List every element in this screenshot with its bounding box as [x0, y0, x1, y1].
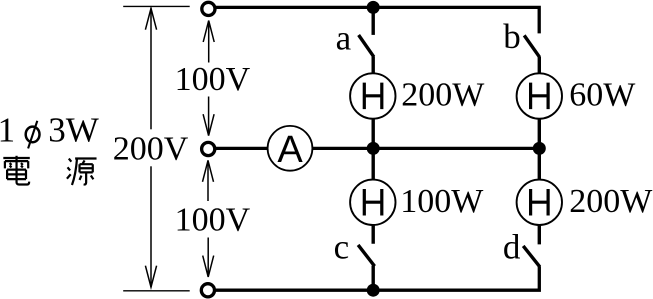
switch b blade: [524, 35, 539, 57]
svg-text:1: 1: [0, 111, 15, 150]
label kanji GEN (source) hand-drawn: [67, 159, 97, 185]
label phi symbol of 1phi3W (drawn circle + slash): [26, 121, 40, 149]
heater H3 circle (bottom-left): [350, 180, 395, 225]
svg-text:200W: 200W: [401, 76, 485, 113]
svg-text:100V: 100V: [175, 61, 251, 98]
wire bottom bus (terminal to right corner, up to switch d): [216, 266, 539, 290]
heater H2 letter: [531, 83, 549, 110]
wire middle bus (terminal through ammeter to right branch): [216, 147, 539, 150]
label kanji DEN (electricity) hand-drawn: [3, 156, 29, 185]
switch d blade: [523, 246, 540, 267]
svg-text:c: c: [334, 228, 350, 267]
wire right branch vertical (switch b through H2, middle bus, H4, to switch d stub): [538, 57, 541, 245]
svg-text:d: d: [503, 228, 521, 267]
svg-text:60W: 60W: [569, 76, 636, 113]
dimension line 100V bottom, upper segment with up arrowhead: [203, 160, 214, 201]
junction dot middle-left node: [367, 142, 380, 155]
wire left branch lower stub (switch c to bottom bus): [372, 266, 375, 291]
heater H1 letter: [364, 83, 382, 110]
dimension tick top: [123, 5, 190, 7]
dimension line 200V upper segment with up arrowhead: [145, 8, 156, 129]
heater H2 circle (top-right): [517, 73, 562, 118]
switch a blade: [359, 35, 374, 57]
svg-text:3W: 3W: [48, 111, 99, 150]
dimension tick bottom: [123, 290, 190, 292]
heater H4 circle (bottom-right): [517, 180, 562, 225]
svg-text:100W: 100W: [400, 183, 484, 220]
ammeter A circle: [268, 126, 313, 171]
heater H4 letter: [531, 189, 549, 216]
wire top bus (terminal to right corner, down to switch b stub): [216, 7, 539, 33]
wire left branch vertical (switch a through H1, middle bus, H3, to switch c stub): [372, 56, 375, 243]
svg-text:a: a: [336, 18, 352, 57]
heater H3 letter: [364, 189, 382, 216]
svg-text:100V: 100V: [175, 202, 251, 239]
switch c blade: [358, 245, 375, 266]
dimension line 100V bottom, lower segment with down arrowhead: [203, 238, 214, 278]
svg-text:200V: 200V: [113, 130, 189, 167]
wire left branch upper stub (top bus to switch a): [372, 7, 375, 35]
terminal bottom (open circle): [201, 284, 214, 297]
dimension line 100V top, lower segment with down arrowhead: [203, 97, 214, 136]
svg-text:A: A: [277, 129, 303, 171]
terminal top (open circle): [202, 2, 215, 15]
terminal middle (open circle): [202, 142, 215, 155]
svg-text:b: b: [503, 17, 521, 56]
svg-text:200W: 200W: [569, 183, 653, 220]
junction dot bottom-left node: [367, 284, 380, 297]
heater H1 circle (top-left): [350, 73, 395, 118]
dimension line 200V lower segment with down arrowhead: [145, 166, 156, 287]
dimension line 100V top, upper segment with up arrowhead: [203, 21, 214, 63]
junction dot top-left node: [367, 1, 380, 14]
junction dot middle-right node: [533, 142, 546, 155]
